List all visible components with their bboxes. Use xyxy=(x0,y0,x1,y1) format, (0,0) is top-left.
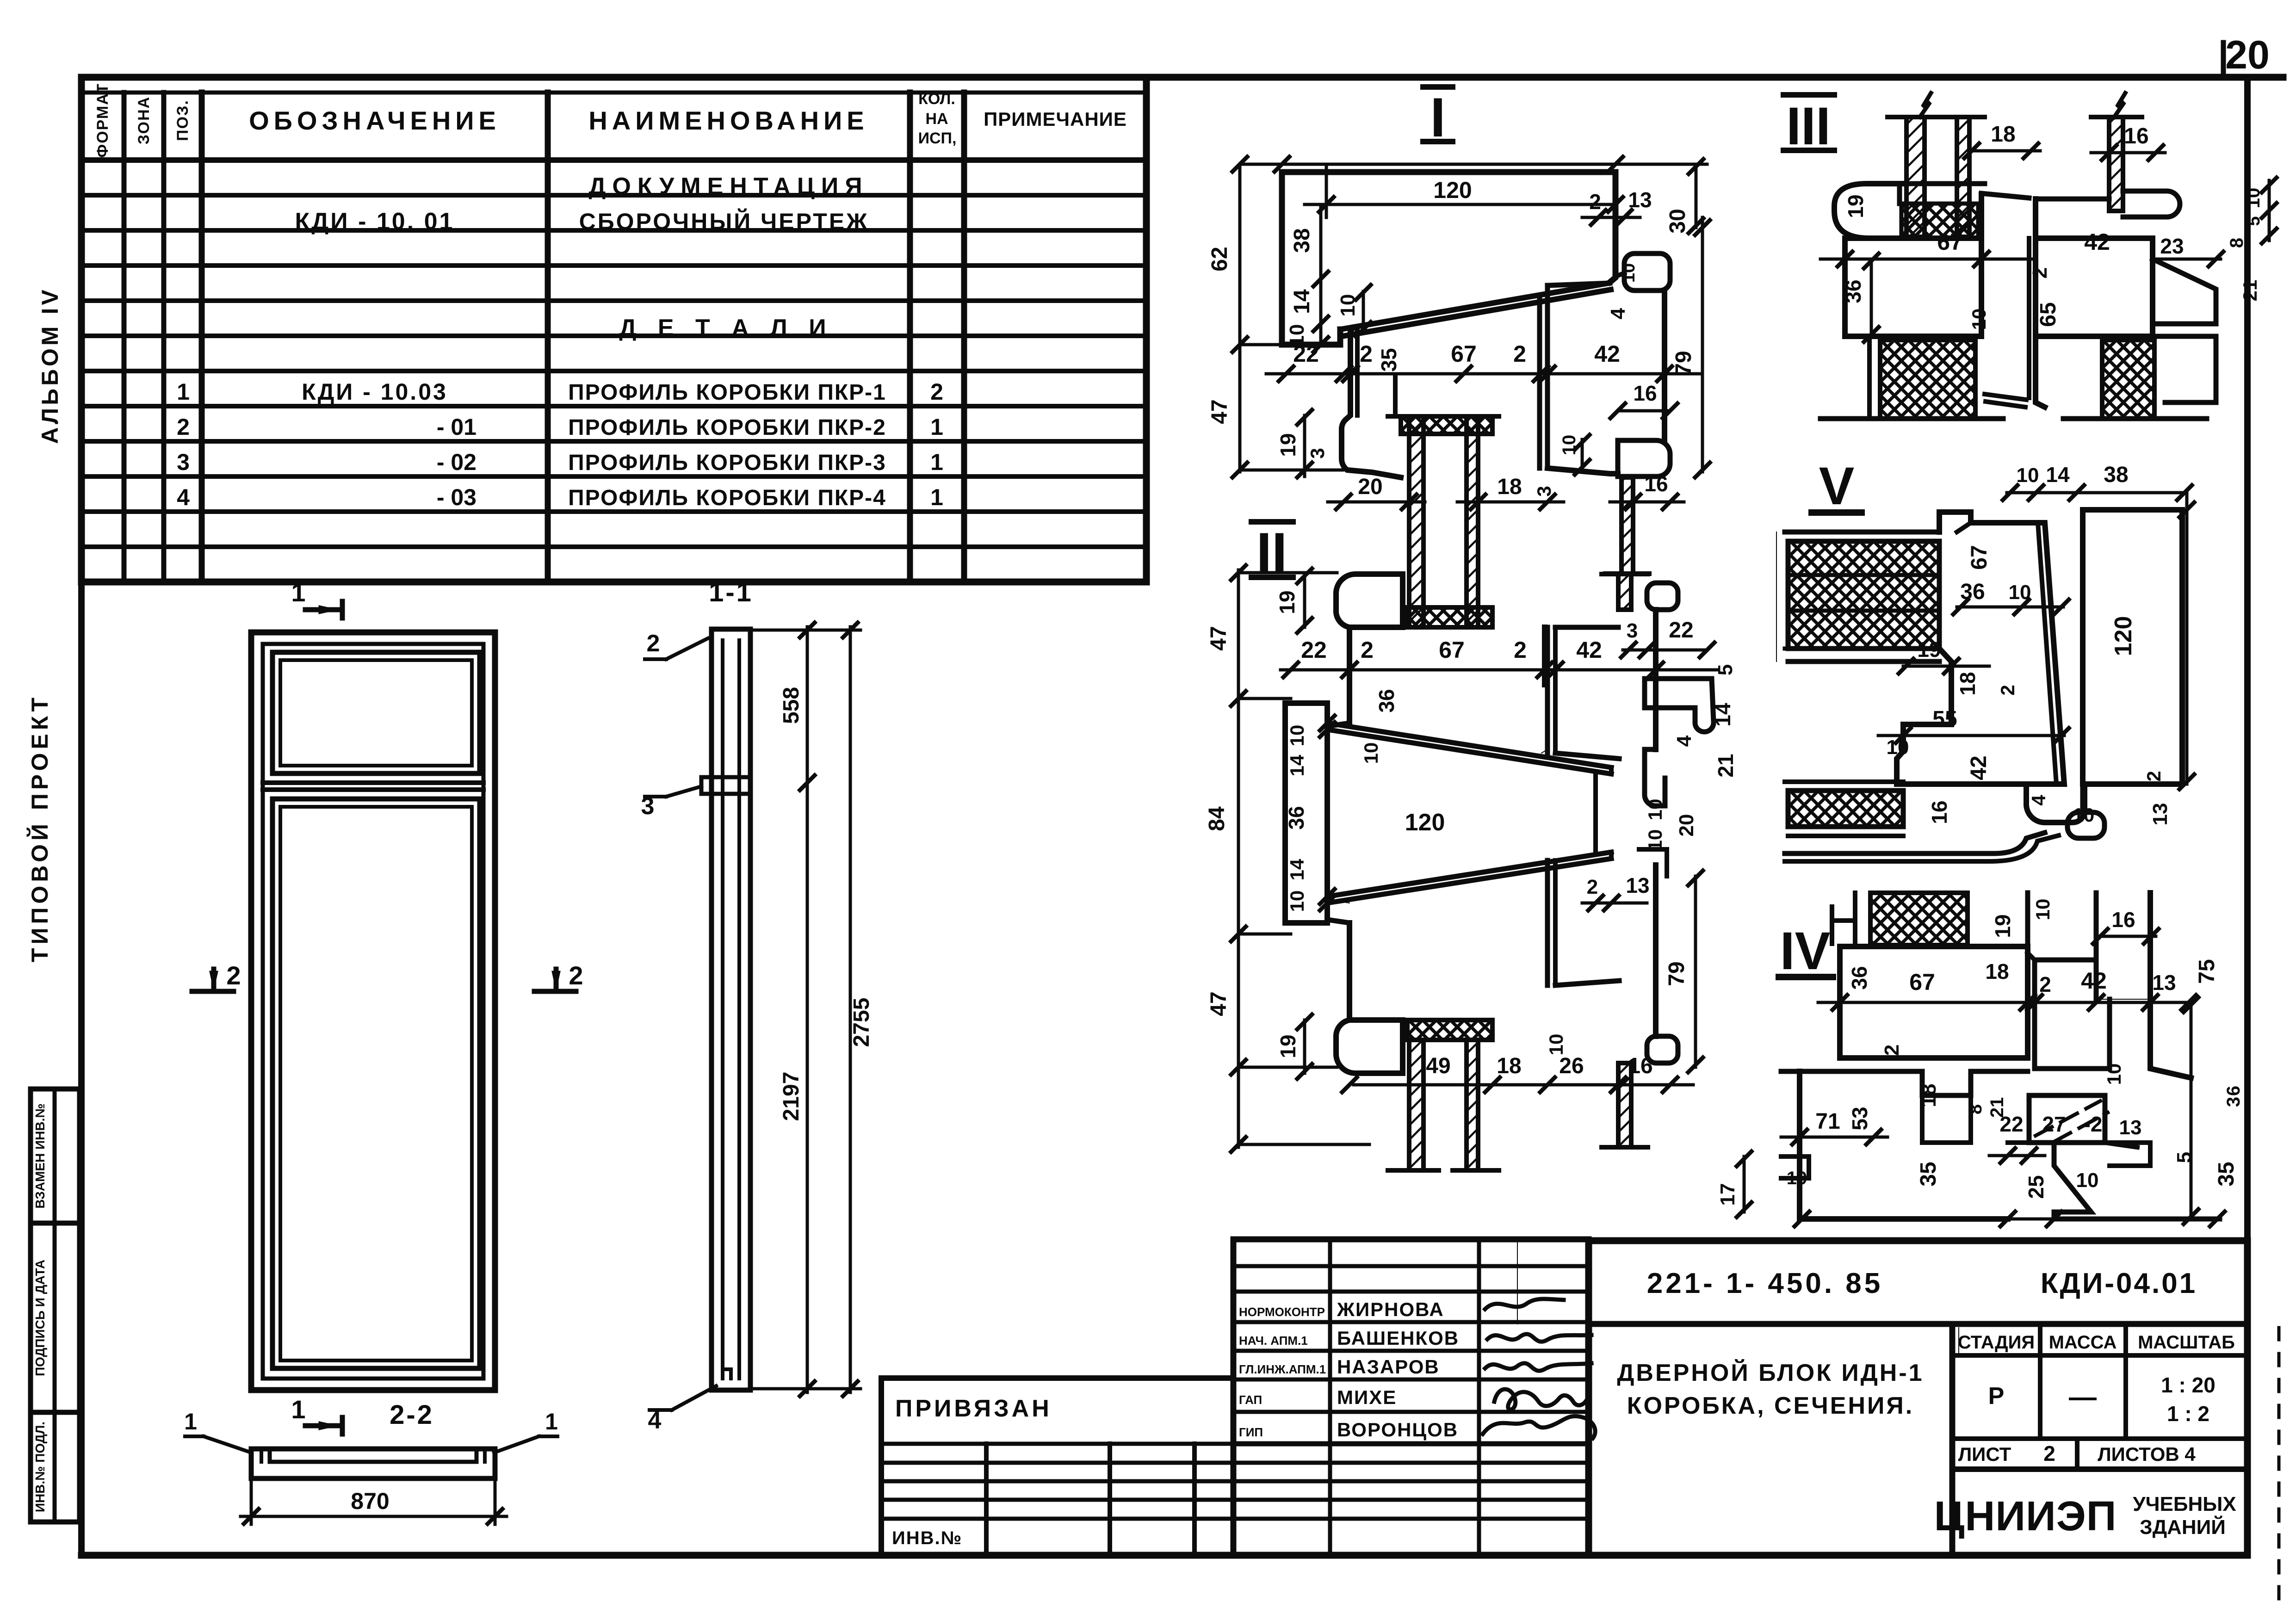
svg-text:ЦНИИЭП: ЦНИИЭП xyxy=(1934,1493,2117,1540)
svg-text:13: 13 xyxy=(1628,188,1652,212)
svg-text:14: 14 xyxy=(2046,463,2070,487)
svg-text:8: 8 xyxy=(2227,238,2247,248)
svg-text:КОЛ.: КОЛ. xyxy=(918,90,955,108)
svg-text:10: 10 xyxy=(2103,1064,2125,1085)
svg-text:19: 19 xyxy=(1276,1034,1300,1058)
svg-text:ГАП: ГАП xyxy=(1239,1393,1262,1407)
dim 558 xyxy=(806,627,809,786)
section II: leaf hatched top xyxy=(1618,574,1631,610)
svg-text:4: 4 xyxy=(2028,795,2049,806)
svg-text:БАШЕНКОВ: БАШЕНКОВ xyxy=(1337,1327,1459,1349)
section I: door leaf hatched xyxy=(1621,477,1633,574)
svg-text:2: 2 xyxy=(1881,1045,1903,1056)
section II: crosshatch bar top xyxy=(1407,607,1492,627)
svg-text:ВЗАМЕН ИНВ.№: ВЗАМЕН ИНВ.№ xyxy=(33,1103,47,1208)
svg-text:18: 18 xyxy=(1916,1083,1940,1107)
svg-text:10: 10 xyxy=(1644,829,1666,851)
svg-text:120: 120 xyxy=(1405,809,1445,836)
svg-text:53: 53 xyxy=(1848,1107,1872,1130)
leader 4 xyxy=(650,1386,716,1410)
svg-text:СБОРОЧНЫЙ ЧЕРТЕЖ: СБОРОЧНЫЙ ЧЕРТЕЖ xyxy=(579,208,869,235)
svg-text:4: 4 xyxy=(1673,735,1696,747)
svg-text:36: 36 xyxy=(1284,806,1308,829)
svg-text:16: 16 xyxy=(1927,800,1951,824)
svg-text:2: 2 xyxy=(1997,685,2018,695)
privyazan box xyxy=(881,1378,1589,1555)
svg-text:47: 47 xyxy=(1207,626,1231,650)
svg-text:ИСП,: ИСП, xyxy=(918,130,957,147)
svg-text:НАЗАРОВ: НАЗАРОВ xyxy=(1337,1356,1440,1378)
svg-text:ЛИСТ: ЛИСТ xyxy=(1958,1443,2011,1465)
svg-text:13: 13 xyxy=(2119,1116,2142,1139)
svg-text:25: 25 xyxy=(2024,1175,2048,1199)
svg-text:МАССА: МАССА xyxy=(2049,1332,2117,1353)
svg-text:120: 120 xyxy=(1433,177,1472,203)
svg-text:2: 2 xyxy=(1361,637,1374,663)
svg-text:10: 10 xyxy=(1286,725,1308,747)
svg-text:38: 38 xyxy=(1290,228,1314,253)
svg-text:10: 10 xyxy=(2076,1169,2099,1192)
svg-text:14: 14 xyxy=(1286,754,1308,776)
svg-text:47: 47 xyxy=(1207,399,1232,424)
svg-text:16: 16 xyxy=(2124,124,2148,148)
svg-text:НАИМЕНОВАНИЕ: НАИМЕНОВАНИЕ xyxy=(588,106,868,135)
page number 20 xyxy=(2221,43,2226,77)
title block xyxy=(1589,1241,2247,1555)
svg-text:47: 47 xyxy=(1207,991,1231,1016)
specification table xyxy=(81,77,1146,582)
svg-text:75: 75 xyxy=(2195,959,2219,983)
svg-text:22: 22 xyxy=(1301,637,1327,663)
svg-text:21: 21 xyxy=(2239,280,2261,302)
leader 1 left xyxy=(185,1436,251,1453)
svg-text:18: 18 xyxy=(1956,672,1980,695)
svg-text:19: 19 xyxy=(1276,433,1300,457)
svg-text:2: 2 xyxy=(2043,1441,2055,1466)
svg-text:- 02: - 02 xyxy=(437,449,477,475)
svg-text:1: 1 xyxy=(291,578,305,607)
svg-text:ПРОФИЛЬ КОРОБКИ ПКР-3: ПРОФИЛЬ КОРОБКИ ПКР-3 xyxy=(568,451,886,475)
svg-text:1: 1 xyxy=(291,1395,305,1424)
svg-text:42: 42 xyxy=(1594,341,1620,367)
svg-text:1: 1 xyxy=(930,414,943,440)
svg-text:18: 18 xyxy=(1497,1054,1521,1078)
svg-text:558: 558 xyxy=(779,687,804,724)
svg-text:МИХЕ: МИХЕ xyxy=(1337,1386,1397,1408)
svg-text:23: 23 xyxy=(2160,234,2184,258)
svg-text:КДИ - 10.03: КДИ - 10.03 xyxy=(302,379,448,405)
signature table xyxy=(1233,1239,1589,1555)
svg-text:2: 2 xyxy=(930,379,943,405)
svg-text:16: 16 xyxy=(1628,1054,1652,1078)
section IV: left bottom box 10 xyxy=(1781,893,2220,1219)
svg-text:5: 5 xyxy=(1714,664,1737,675)
svg-text:16: 16 xyxy=(2111,908,2135,932)
svg-text:13: 13 xyxy=(2152,971,2176,995)
section I: wall studs hatched xyxy=(1409,416,1423,607)
svg-text:16: 16 xyxy=(1633,381,1657,405)
door elevation: transom pane xyxy=(272,652,480,773)
svg-text:2: 2 xyxy=(2029,267,2051,278)
svg-text:ПРОФИЛЬ КОРОБКИ ПКР-1: ПРОФИЛЬ КОРОБКИ ПКР-1 xyxy=(568,380,886,405)
svg-text:14: 14 xyxy=(1711,703,1735,727)
svg-text:ДОКУМЕНТАЦИЯ: ДОКУМЕНТАЦИЯ xyxy=(588,173,868,200)
svg-text:ИНВ.№ ПОДЛ.: ИНВ.№ ПОДЛ. xyxy=(33,1422,47,1512)
svg-text:2: 2 xyxy=(1513,341,1526,367)
svg-text:20: 20 xyxy=(1675,814,1698,837)
svg-text:2-2: 2-2 xyxy=(390,1400,434,1430)
section III: wall studs xyxy=(1820,93,2216,419)
svg-text:—: — xyxy=(2069,1381,2097,1412)
svg-text:КДИ - 10. 01: КДИ - 10. 01 xyxy=(295,208,455,235)
svg-text:ПРИМЕЧАНИЕ: ПРИМЕЧАНИЕ xyxy=(984,108,1127,130)
section mark 2 left xyxy=(192,969,234,991)
section II: wall studs hatched bottom xyxy=(1409,1040,1423,1170)
svg-text:ГИП: ГИП xyxy=(1239,1425,1263,1439)
door elevation: main pane xyxy=(272,799,480,1368)
svg-text:4: 4 xyxy=(1607,308,1629,319)
transom divider xyxy=(263,783,483,790)
svg-text:АЛЬБОМ IV: АЛЬБОМ IV xyxy=(37,287,63,444)
svg-text:2: 2 xyxy=(177,414,190,440)
dim 870 xyxy=(241,1515,507,1518)
svg-text:КДИ-04.01: КДИ-04.01 xyxy=(2041,1268,2197,1299)
svg-text:10: 10 xyxy=(1286,890,1308,912)
svg-text:20: 20 xyxy=(2225,33,2270,77)
svg-text:10: 10 xyxy=(1887,736,1909,759)
leader 1 right xyxy=(494,1436,557,1453)
svg-text:62: 62 xyxy=(1207,247,1232,271)
svg-text:1 : 2: 1 : 2 xyxy=(2167,1402,2209,1426)
svg-text:19: 19 xyxy=(1275,590,1299,614)
svg-text:18: 18 xyxy=(1985,959,2009,983)
svg-text:КОРОБКА, СЕЧЕНИЯ.: КОРОБКА, СЕЧЕНИЯ. xyxy=(1627,1392,1914,1419)
svg-text:10: 10 xyxy=(1559,435,1579,456)
fold mark dashed xyxy=(2277,1328,2281,1601)
leader 2 xyxy=(645,638,708,659)
dim 2197 xyxy=(806,783,809,1392)
svg-text:120: 120 xyxy=(2110,616,2137,656)
section II: upper left jamb xyxy=(1285,574,1714,1073)
section III dims xyxy=(1820,122,2277,342)
svg-text:10: 10 xyxy=(2017,464,2039,487)
svg-text:2755: 2755 xyxy=(849,998,874,1047)
section V dims xyxy=(1878,463,2194,826)
svg-text:1: 1 xyxy=(545,1409,558,1435)
svg-text:20: 20 xyxy=(1358,475,1382,499)
section I: head board outline xyxy=(1282,172,1670,477)
svg-text:35: 35 xyxy=(1916,1162,1941,1186)
svg-text:ПРОФИЛЬ КОРОБКИ ПКР-2: ПРОФИЛЬ КОРОБКИ ПКР-2 xyxy=(568,415,886,440)
svg-text:УЧЕБНЫХ: УЧЕБНЫХ xyxy=(2133,1493,2236,1515)
svg-text:ГЛ.ИНЖ.АПМ.1: ГЛ.ИНЖ.АПМ.1 xyxy=(1239,1362,1326,1376)
svg-text:2: 2 xyxy=(2039,972,2051,996)
svg-text:19: 19 xyxy=(1991,914,2015,938)
svg-text:10: 10 xyxy=(1968,309,1990,330)
section I dims xyxy=(1207,157,1710,509)
svg-text:26: 26 xyxy=(1559,1054,1584,1078)
svg-text:5: 5 xyxy=(2244,216,2264,226)
svg-text:3: 3 xyxy=(177,449,190,475)
svg-text:55: 55 xyxy=(1932,707,1957,731)
svg-text:22: 22 xyxy=(1999,1112,2023,1136)
svg-text:ПОЗ.: ПОЗ. xyxy=(174,99,192,141)
svg-text:1 : 20: 1 : 20 xyxy=(2161,1373,2216,1397)
section I: wood blocking crosshatch xyxy=(1401,416,1492,434)
section mark 1 bottom xyxy=(305,1417,342,1434)
svg-text:НА: НА xyxy=(925,110,948,128)
svg-text:67: 67 xyxy=(1937,229,1963,255)
svg-text:21: 21 xyxy=(1714,754,1738,777)
svg-text:2: 2 xyxy=(1514,637,1527,663)
svg-text:17: 17 xyxy=(1716,1183,1739,1206)
svg-text:ИНВ.№: ИНВ.№ xyxy=(892,1528,962,1548)
svg-text:2: 2 xyxy=(2143,771,2165,781)
svg-text:18: 18 xyxy=(1497,475,1522,499)
svg-text:42: 42 xyxy=(2084,229,2110,255)
left attribute boxes xyxy=(31,1089,80,1522)
svg-text:49: 49 xyxy=(1426,1054,1450,1078)
svg-text:3: 3 xyxy=(2223,1097,2244,1107)
svg-text:3: 3 xyxy=(1533,486,1555,496)
svg-text:2: 2 xyxy=(569,961,583,990)
svg-text:10: 10 xyxy=(1337,294,1359,317)
svg-text:42: 42 xyxy=(1576,637,1602,663)
section II dims xyxy=(1205,565,1738,1152)
svg-text:2: 2 xyxy=(647,630,660,657)
svg-text:35: 35 xyxy=(2214,1162,2239,1186)
section IV dims xyxy=(1716,899,2244,1226)
svg-text:ТИПОВОЙ ПРОЕКТ: ТИПОВОЙ ПРОЕКТ xyxy=(26,694,53,962)
svg-text:ПРОФИЛЬ КОРОБКИ ПКР-4: ПРОФИЛЬ КОРОБКИ ПКР-4 xyxy=(568,486,886,510)
svg-text:НОРМОКОНТР: НОРМОКОНТР xyxy=(1239,1305,1325,1319)
svg-text:СТАДИЯ: СТАДИЯ xyxy=(1958,1332,2035,1353)
section II: leaf hatched bottom xyxy=(1618,1063,1631,1147)
svg-text:221- 1- 450. 85: 221- 1- 450. 85 xyxy=(1647,1268,1883,1299)
svg-text:2197: 2197 xyxy=(779,1072,804,1121)
svg-text:10: 10 xyxy=(2032,899,2054,921)
svg-text:- 01: - 01 xyxy=(437,414,477,440)
svg-text:67: 67 xyxy=(1439,637,1465,663)
svg-text:МАСШТАБ: МАСШТАБ xyxy=(2138,1332,2235,1353)
svg-text:ДВЕРНОЙ БЛОК ИДН-1: ДВЕРНОЙ БЛОК ИДН-1 xyxy=(1617,1359,1924,1386)
svg-text:84: 84 xyxy=(1205,806,1229,831)
svg-text:10: 10 xyxy=(1644,799,1666,821)
section mark 2 right xyxy=(534,969,576,991)
svg-text:71: 71 xyxy=(1815,1109,1840,1134)
svg-text:4: 4 xyxy=(648,1407,662,1434)
door elevation: outer frame xyxy=(251,632,495,1390)
svg-text:Д Е Т А Л И: Д Е Т А Л И xyxy=(619,315,833,341)
svg-text:4: 4 xyxy=(177,484,190,510)
svg-text:ВОРОНЦОВ: ВОРОНЦОВ xyxy=(1337,1419,1458,1441)
svg-text:13: 13 xyxy=(1626,873,1649,897)
svg-text:ПОДПИСЬ И ДАТА: ПОДПИСЬ И ДАТА xyxy=(33,1260,47,1376)
svg-text:10: 10 xyxy=(1360,742,1382,764)
dim 2755 xyxy=(849,627,852,1392)
svg-text:14: 14 xyxy=(1290,289,1314,314)
svg-text:1: 1 xyxy=(930,484,943,510)
svg-text:67: 67 xyxy=(1909,969,1935,995)
svg-text:16: 16 xyxy=(1644,472,1668,496)
svg-text:67: 67 xyxy=(1967,545,1992,569)
section II: wall studs hatched top xyxy=(1409,607,1423,627)
svg-text:Р: Р xyxy=(1988,1383,2005,1410)
svg-text:-2: -2 xyxy=(2084,1112,2103,1136)
svg-text:36: 36 xyxy=(1841,279,1865,303)
svg-text:19: 19 xyxy=(1844,194,1868,218)
svg-text:НАЧ. АПМ.1: НАЧ. АПМ.1 xyxy=(1239,1334,1308,1348)
section V: sill lines xyxy=(1776,510,2182,861)
svg-text:79: 79 xyxy=(1665,961,1689,986)
svg-text:2: 2 xyxy=(1587,876,1598,898)
svg-text:42: 42 xyxy=(1967,755,1991,780)
svg-text:2: 2 xyxy=(1360,341,1373,367)
svg-text:III: III xyxy=(1786,97,1831,156)
svg-text:V: V xyxy=(1819,457,1855,516)
svg-text:2: 2 xyxy=(226,961,241,990)
svg-text:1: 1 xyxy=(184,1409,197,1435)
svg-text:27: 27 xyxy=(2042,1112,2066,1136)
svg-text:6: 6 xyxy=(2223,1086,2244,1096)
signatures xyxy=(1485,1299,1564,1309)
svg-text:ЖИРНОВА: ЖИРНОВА xyxy=(1337,1299,1444,1320)
svg-text:38: 38 xyxy=(2104,463,2128,487)
svg-text:ПРИВЯЗАН: ПРИВЯЗАН xyxy=(895,1395,1052,1422)
svg-text:ЛИСТОВ 4: ЛИСТОВ 4 xyxy=(2098,1443,2196,1465)
svg-text:10: 10 xyxy=(2009,581,2031,604)
svg-text:36: 36 xyxy=(1847,966,1871,989)
svg-text:30: 30 xyxy=(1665,209,1690,233)
svg-text:42: 42 xyxy=(2081,968,2107,994)
svg-text:3: 3 xyxy=(641,793,655,820)
svg-text:18: 18 xyxy=(1991,122,2015,147)
svg-text:870: 870 xyxy=(351,1488,389,1514)
svg-text:79: 79 xyxy=(1671,351,1696,375)
svg-text:IV: IV xyxy=(1780,921,1831,981)
svg-text:10: 10 xyxy=(2243,188,2264,209)
svg-text:1-1: 1-1 xyxy=(709,577,753,607)
svg-text:ЗДАНИЙ: ЗДАНИЙ xyxy=(2140,1515,2226,1539)
svg-text:36: 36 xyxy=(1374,689,1399,712)
svg-text:1: 1 xyxy=(930,449,943,475)
svg-text:ОБОЗНАЧЕНИЕ: ОБОЗНАЧЕНИЕ xyxy=(249,106,501,135)
svg-text:22: 22 xyxy=(1293,341,1319,367)
section mark 1 top xyxy=(305,601,342,618)
bottom-left grid xyxy=(881,1444,1589,1555)
svg-text:14: 14 xyxy=(1286,859,1308,880)
svg-text:ФОРМАТ: ФОРМАТ xyxy=(94,83,111,158)
svg-text:- 03: - 03 xyxy=(437,484,477,510)
svg-text:22: 22 xyxy=(1669,618,1693,643)
svg-text:2: 2 xyxy=(1589,190,1601,214)
svg-text:65: 65 xyxy=(2036,302,2061,327)
svg-text:3: 3 xyxy=(1306,448,1328,458)
svg-text:10: 10 xyxy=(1619,263,1639,283)
svg-text:67: 67 xyxy=(1451,341,1477,367)
section II: crosshatch bar bottom xyxy=(1407,1020,1492,1040)
svg-text:8: 8 xyxy=(1965,1104,1986,1114)
svg-text:10: 10 xyxy=(1787,1168,1807,1188)
svg-text:10: 10 xyxy=(1545,1034,1567,1056)
svg-text:ЗОНА: ЗОНА xyxy=(135,96,153,144)
svg-text:10: 10 xyxy=(2073,804,2095,826)
svg-text:13: 13 xyxy=(2149,803,2172,826)
svg-text:35: 35 xyxy=(1377,348,1401,371)
svg-text:36: 36 xyxy=(1960,580,1985,604)
svg-text:1: 1 xyxy=(177,379,190,405)
svg-text:19: 19 xyxy=(1917,637,1941,662)
leader 3 xyxy=(645,786,701,797)
svg-text:3: 3 xyxy=(1627,619,1638,642)
